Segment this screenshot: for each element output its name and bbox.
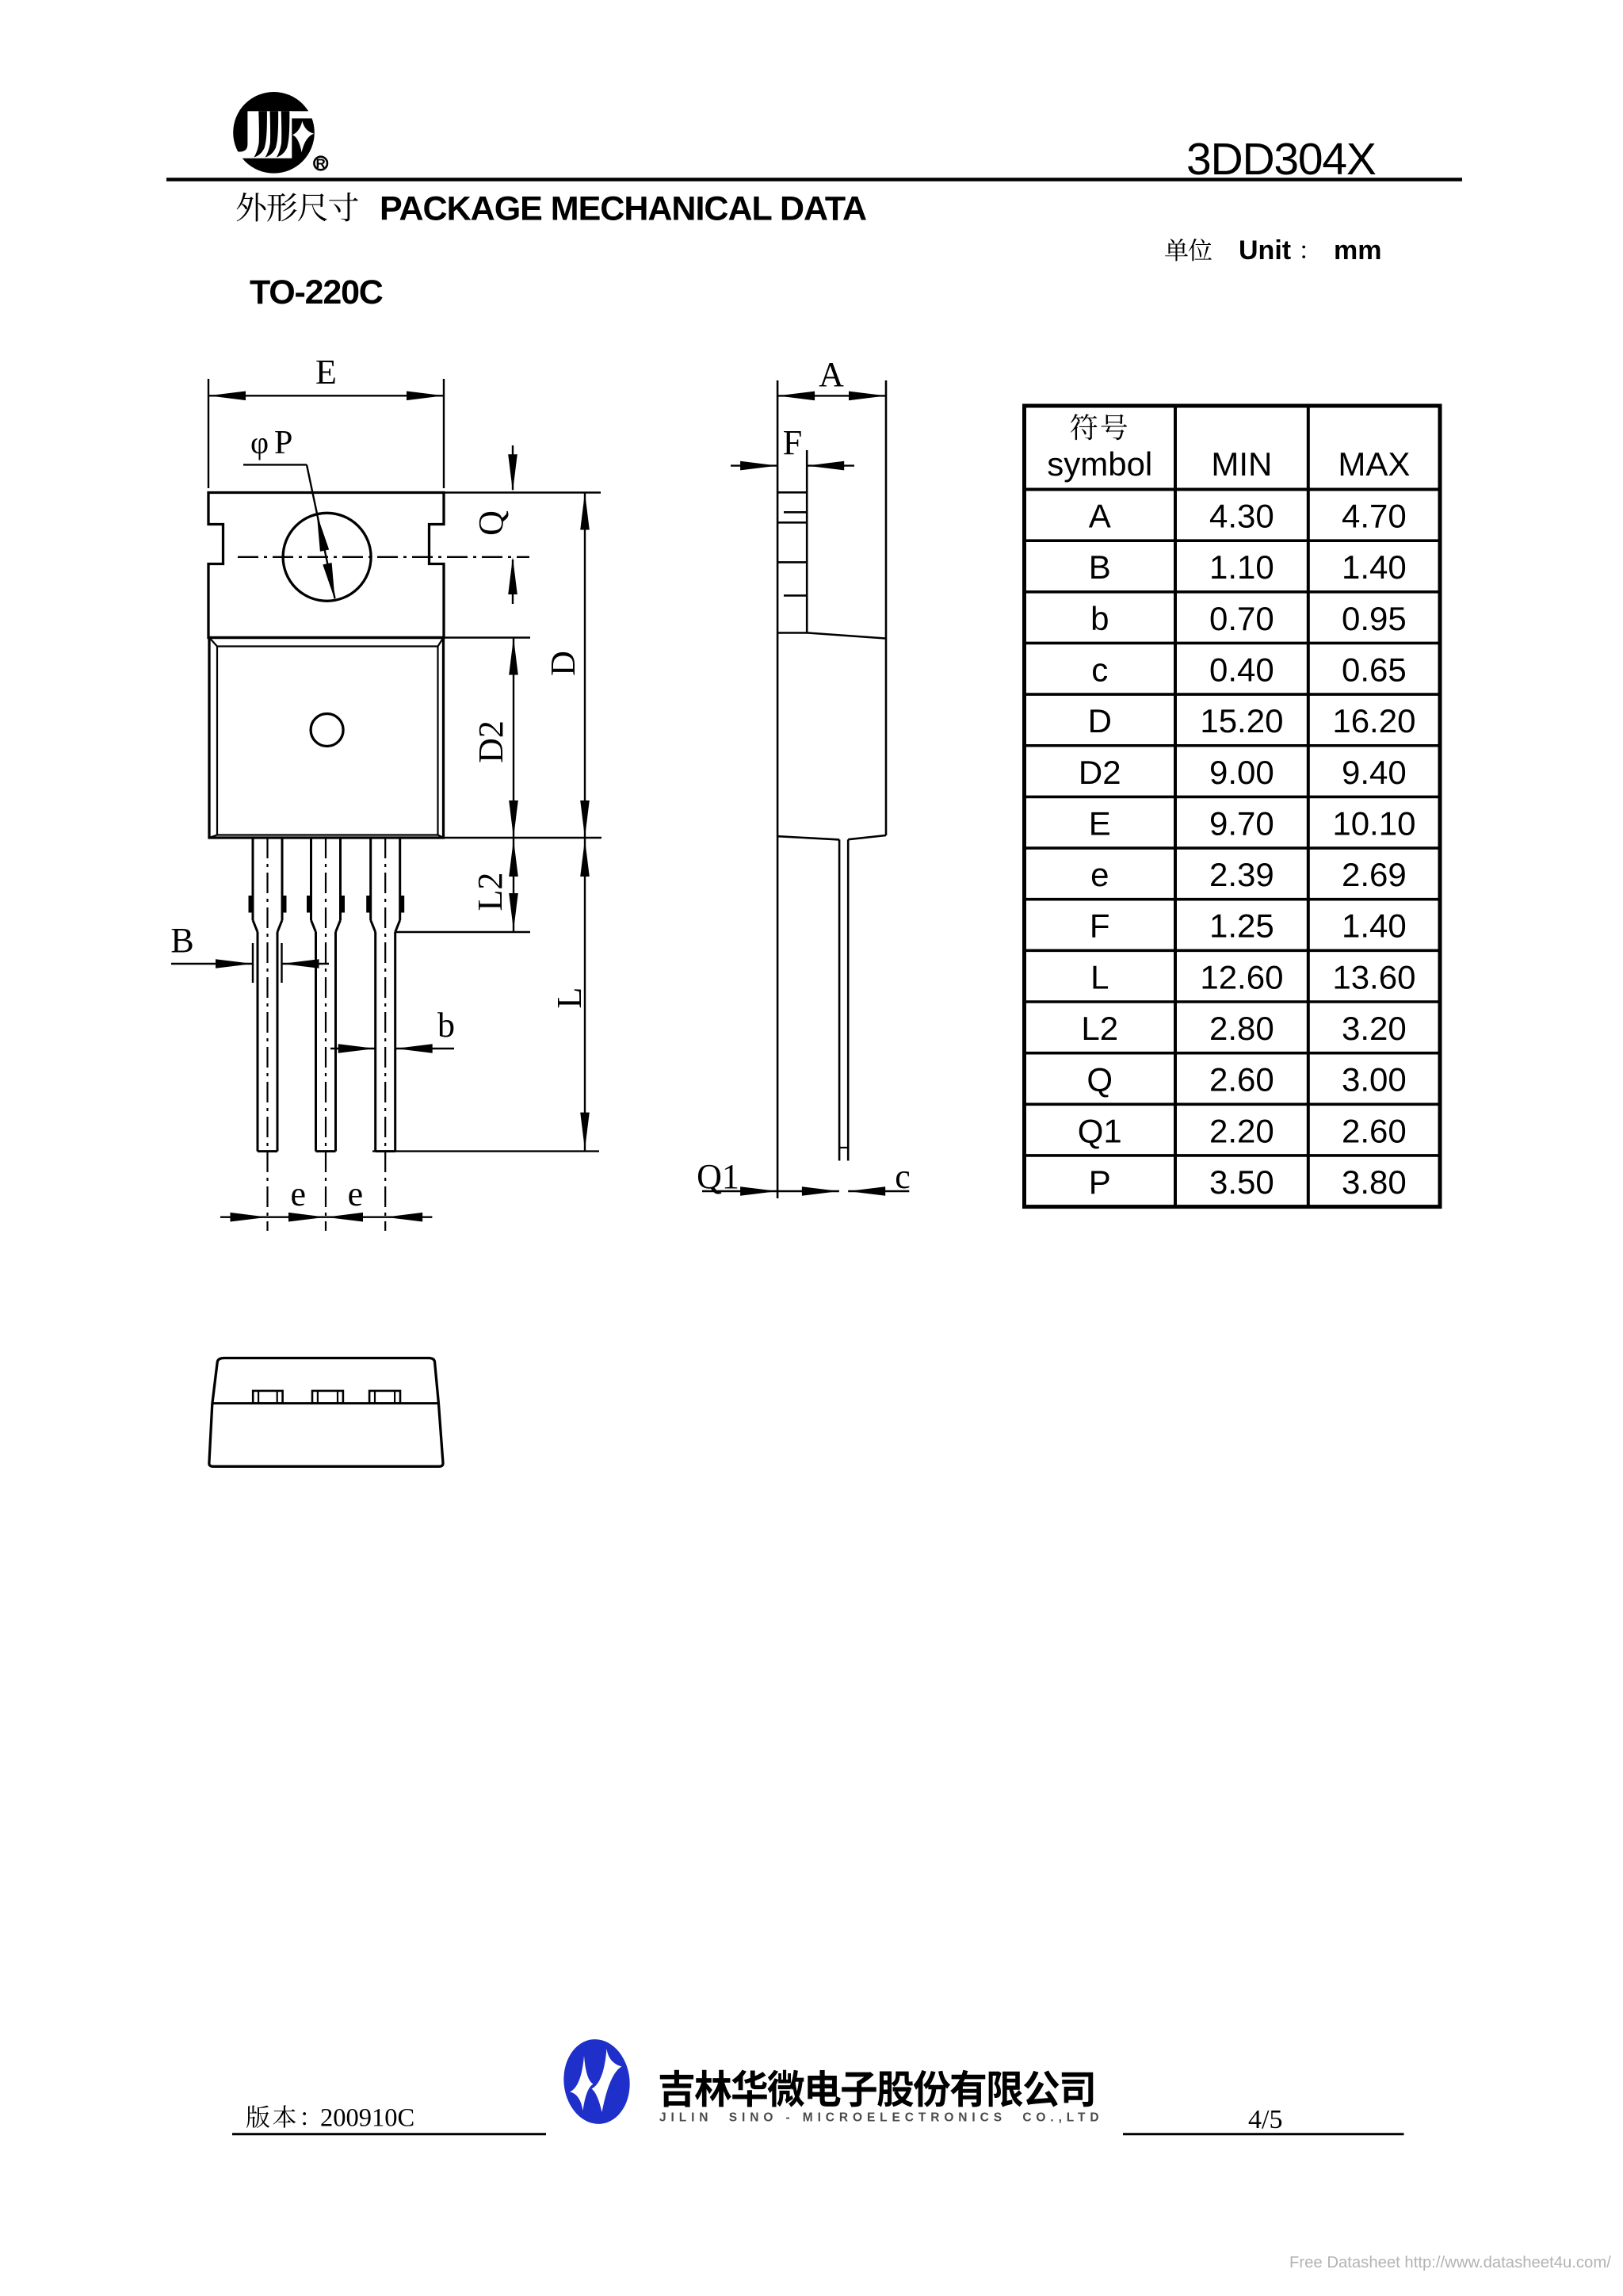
svg-text:b: b (437, 1006, 455, 1045)
dimension F: stems, arrows and label (731, 423, 854, 470)
table row F (1090, 907, 1407, 945)
table row D (1088, 702, 1416, 739)
dimension E: extension lines, arrows and label (208, 353, 444, 488)
svg-text:9.00: 9.00 (1209, 754, 1274, 791)
dimension Q1 and c: line, arrows and labels (697, 1157, 911, 1196)
svg-text:D: D (1088, 702, 1112, 739)
table row P (1089, 1163, 1407, 1201)
svg-text:2.60: 2.60 (1209, 1061, 1274, 1098)
svg-text:e: e (1090, 856, 1109, 893)
svg-text:mm: mm (1334, 235, 1381, 266)
side view: tab/body transition edges (777, 633, 885, 639)
svg-text:F: F (1090, 907, 1110, 945)
front view: lead at x=486.2 (369, 838, 403, 1231)
side view: body bottom edges (777, 835, 886, 839)
svg-text:E: E (1089, 804, 1111, 842)
svg-text:MIN: MIN (1211, 445, 1272, 483)
dimension L: line, arrows, reference line and label (372, 838, 599, 1152)
svg-text:4.70: 4.70 (1342, 498, 1407, 535)
svg-text:2.80: 2.80 (1209, 1010, 1274, 1047)
dimension Q: arrows and label (472, 445, 517, 604)
svg-text:MAX: MAX (1338, 445, 1410, 483)
svg-text:Free Datasheet http://www.data: Free Datasheet http://www.datasheet4u.co… (1289, 2254, 1611, 2271)
table row E (1089, 804, 1416, 842)
footer: version 版本：200910C (246, 2103, 414, 2132)
front view: body outer rectangle (209, 638, 444, 839)
table row D2 (1079, 754, 1407, 791)
footer: right rule (1123, 2133, 1404, 2135)
svg-text:3.80: 3.80 (1342, 1163, 1407, 1201)
svg-text:3DD304X: 3DD304X (1186, 134, 1376, 185)
company logo: Jilin Sino-Micro circle emblem (230, 92, 315, 174)
svg-text:0.40: 0.40 (1209, 651, 1274, 688)
dimension e (lead pitch): line, arrows and labels (220, 1175, 432, 1222)
bottom view: parting line (212, 1402, 439, 1404)
front view: hole centerline (238, 556, 529, 558)
svg-text:3.50: 3.50 (1209, 1163, 1274, 1201)
front view: package tab outline with side notches (208, 493, 444, 638)
heading: Chinese 外形尺寸 (237, 193, 358, 222)
table row c (1091, 651, 1407, 688)
svg-text:TO-220C: TO-220C (250, 273, 383, 311)
table row L (1090, 958, 1415, 995)
svg-text:0.65: 0.65 (1342, 651, 1407, 688)
front view: small body hole (311, 714, 343, 747)
table row b (1090, 600, 1407, 637)
dimension D: line, arrows and label (544, 493, 590, 839)
side view: front face line (777, 380, 779, 1198)
extension line from body bottom edge (444, 837, 602, 839)
front view: mounting hole (283, 513, 371, 601)
table row L2 (1081, 1010, 1406, 1047)
svg-text:F: F (783, 423, 802, 462)
svg-text:Q1: Q1 (697, 1157, 739, 1196)
footer logo: blue ellipse with sparkles (559, 2036, 634, 2127)
side view: tab feature ticks (777, 492, 807, 595)
side view: lead profile (839, 839, 848, 1160)
svg-text:JILIN SINO - MICROELECTRONICS: JILIN SINO - MICROELECTRONICS CO.,LTD (659, 2111, 1103, 2125)
svg-text:Q: Q (1086, 1061, 1113, 1098)
svg-text:1.40: 1.40 (1342, 548, 1407, 586)
table row Q (1086, 1061, 1406, 1098)
svg-text:L2: L2 (471, 873, 510, 911)
dimension A: line, arrows and label (777, 355, 886, 400)
svg-text:e: e (348, 1175, 364, 1213)
svg-text:D2: D2 (1079, 754, 1121, 791)
extension line from tab top edge (444, 491, 601, 493)
svg-text:1.10: 1.10 (1209, 548, 1274, 586)
svg-text:9.40: 9.40 (1342, 754, 1407, 791)
svg-text:Q1: Q1 (1078, 1112, 1122, 1149)
dimension L2: line, arrows, reference line and label (395, 838, 530, 932)
bottom view: package outline (209, 1358, 443, 1467)
table header: 符号 symbol / MIN / MAX (1047, 414, 1410, 483)
bottom view: lead cross-section 3 (369, 1391, 400, 1404)
svg-text:Unit: Unit (1239, 235, 1291, 266)
side view: tab inner face line F (806, 450, 808, 633)
svg-text:c: c (895, 1157, 911, 1196)
svg-text:c: c (1091, 651, 1108, 688)
svg-text:2.20: 2.20 (1209, 1112, 1274, 1149)
side view: back face line (885, 380, 888, 835)
table row B (1089, 548, 1407, 586)
svg-text:D: D (544, 651, 582, 676)
svg-text:e: e (291, 1175, 307, 1213)
bottom view: lead cross-section 1 (253, 1391, 282, 1404)
front view: body inner bevel lines (209, 638, 444, 839)
svg-text:A: A (1089, 498, 1111, 535)
svg-text:1.25: 1.25 (1209, 907, 1274, 945)
footer: left rule (232, 2133, 546, 2135)
svg-text:L: L (1090, 958, 1109, 995)
svg-text:9.70: 9.70 (1209, 804, 1274, 842)
svg-text:4.30: 4.30 (1209, 498, 1274, 535)
svg-text:200910C: 200910C (320, 2103, 414, 2132)
svg-text:12.60: 12.60 (1200, 958, 1283, 995)
label and leader phi-P (mounting hole diameter) (243, 425, 335, 600)
svg-text:b: b (1090, 600, 1109, 637)
svg-text:4/5: 4/5 (1248, 2105, 1282, 2134)
svg-text:3.20: 3.20 (1342, 1010, 1407, 1047)
svg-text:Q: Q (472, 510, 510, 536)
svg-text:2.60: 2.60 (1342, 1112, 1407, 1149)
front view: lead at x=337.5 (250, 838, 285, 1231)
svg-text:PACKAGE MECHANICAL DATA: PACKAGE MECHANICAL DATA (380, 190, 866, 228)
svg-text:A: A (819, 355, 844, 394)
dimension B: stems, arrows, extension lines and label (170, 921, 329, 983)
front view: lead at x=411 (309, 838, 343, 1231)
footer: company name 吉林华微电子股份有限公司 (660, 2070, 1093, 2107)
svg-text:2.69: 2.69 (1342, 856, 1407, 893)
svg-text:0.95: 0.95 (1342, 600, 1407, 637)
dimension b: stems, arrows and label (330, 1006, 455, 1053)
dimension D2: line, arrows and label (472, 638, 518, 839)
svg-text:3.00: 3.00 (1342, 1061, 1407, 1098)
svg-text:R: R (316, 156, 326, 171)
svg-text:16.20: 16.20 (1332, 702, 1415, 739)
svg-text:φ: φ (250, 425, 269, 460)
svg-text:L: L (550, 988, 589, 1009)
table row e (1090, 856, 1407, 893)
dimension table grid (1025, 406, 1441, 1207)
svg-text:E: E (315, 353, 337, 392)
svg-text:D2: D2 (472, 720, 510, 763)
svg-text:0.70: 0.70 (1209, 600, 1274, 637)
svg-text:B: B (170, 921, 193, 960)
svg-text:symbol: symbol (1047, 445, 1152, 483)
svg-text:P: P (274, 425, 292, 461)
svg-text:P: P (1089, 1163, 1111, 1201)
header rule (166, 178, 1462, 181)
bottom view: lead cross-section 2 (312, 1391, 343, 1404)
svg-text:2.39: 2.39 (1209, 856, 1274, 893)
svg-text:1.40: 1.40 (1342, 907, 1407, 945)
registered trademark symbol (314, 157, 327, 170)
table row A (1089, 498, 1407, 535)
table row Q1 (1078, 1112, 1407, 1149)
svg-text:10.10: 10.10 (1332, 804, 1415, 842)
svg-text:13.60: 13.60 (1332, 958, 1415, 995)
svg-text:B: B (1089, 548, 1111, 586)
extension line from body top edge (444, 636, 531, 638)
svg-text:15.20: 15.20 (1200, 702, 1283, 739)
svg-text:L2: L2 (1081, 1010, 1118, 1047)
unit note: 单位 Unit : mm (1165, 239, 1212, 261)
